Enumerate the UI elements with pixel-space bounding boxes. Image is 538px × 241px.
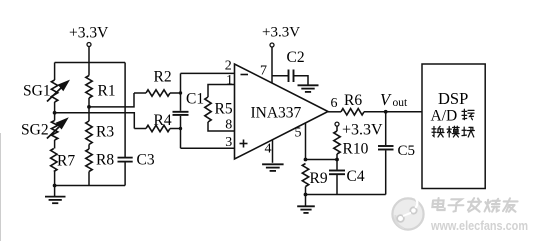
svg-text:+3.3V: +3.3V	[342, 122, 383, 139]
svg-text:R1: R1	[98, 83, 116, 100]
svg-text:DSP: DSP	[438, 89, 468, 108]
watermark 电子发烧友	[432, 198, 446, 210]
svg-text:4: 4	[265, 142, 272, 157]
svg-text:SG2: SG2	[21, 122, 49, 139]
wire bridge output A to R2	[89, 93, 134, 107]
svg-text:R8: R8	[96, 152, 114, 169]
op-amp INA337	[235, 64, 329, 159]
svg-text:R7: R7	[57, 153, 75, 170]
label 换模块 (module)	[432, 126, 444, 137]
label 转 (conversion)	[462, 109, 474, 119]
scan edge artifact	[0, 133, 1, 241]
svg-text:out: out	[393, 97, 409, 109]
svg-text:C2: C2	[287, 49, 305, 66]
svg-text:3: 3	[225, 135, 232, 150]
resistor R5 gain loop pins 1-8	[208, 85, 235, 98]
svg-text:SG1: SG1	[23, 83, 51, 100]
svg-text:8: 8	[225, 118, 232, 133]
wire pin5 to R10/C4	[306, 159, 338, 161]
wire output to DSP	[364, 111, 422, 113]
svg-text:6: 6	[331, 96, 338, 111]
svg-text:1: 1	[226, 73, 233, 88]
svg-text:5: 5	[295, 126, 302, 141]
svg-text:2: 2	[225, 59, 232, 74]
svg-text:C1: C1	[186, 91, 204, 108]
DSP A/D module box	[422, 64, 485, 189]
svg-text:7: 7	[260, 64, 267, 79]
watermark logo	[392, 192, 423, 230]
ground C2	[298, 84, 319, 86]
svg-text:C3: C3	[137, 152, 155, 169]
svg-text:C4: C4	[347, 168, 365, 185]
node bridge output B (SG1/SG2 junction)	[53, 111, 57, 115]
svg-text:R6: R6	[344, 92, 362, 109]
svg-text:www.elecfans.com: www.elecfans.com	[430, 218, 528, 233]
ground output	[305, 195, 307, 206]
svg-text:R3: R3	[96, 124, 114, 141]
svg-text:R5: R5	[215, 101, 233, 118]
wire pin 3 input	[181, 147, 235, 149]
node bridge output A (R1/R3 junction)	[87, 105, 91, 109]
wire output bottom rail	[306, 194, 386, 196]
svg-text:R10: R10	[343, 141, 369, 158]
svg-text:R9: R9	[310, 170, 328, 187]
wire bridge output B to R4	[55, 113, 135, 129]
svg-text:C5: C5	[398, 143, 416, 159]
wire pin 2 input	[181, 72, 235, 74]
wire top rail	[55, 62, 126, 64]
wire bottom rail	[55, 185, 126, 187]
svg-text:+3.3V: +3.3V	[69, 25, 109, 42]
svg-text:A/D: A/D	[431, 108, 458, 125]
ground bridge	[54, 186, 56, 197]
node Vout	[384, 110, 388, 114]
svg-text:R2: R2	[154, 69, 172, 86]
svg-text:+3.3V: +3.3V	[262, 25, 300, 41]
svg-text:INA337: INA337	[251, 105, 302, 122]
